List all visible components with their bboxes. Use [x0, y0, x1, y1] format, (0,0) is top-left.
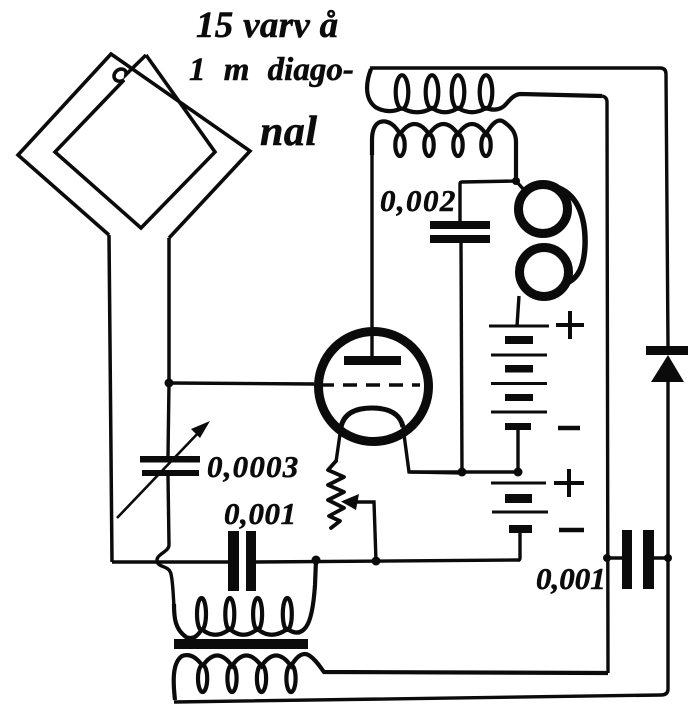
label 0,001 right	[536, 561, 606, 597]
wire filament right leg	[403, 427, 465, 473]
wire bottom outer bus	[174, 382, 668, 702]
inductor L2 top coil left tail	[367, 69, 402, 111]
wire filament bus	[409, 470, 518, 473]
battery B1 plus	[556, 311, 584, 339]
wire filament left leg	[336, 427, 341, 462]
rheostat R1 arrow tap	[341, 494, 359, 510]
node rheostat tap junction	[372, 557, 381, 566]
wire 0,002 top lead	[460, 181, 516, 221]
node 0,002 bottom junction	[458, 468, 467, 477]
wire phones bottom stub	[517, 296, 519, 326]
tube V1 plate lead	[370, 152, 373, 356]
variable capacitor C1 plates	[140, 456, 200, 476]
transformer T1 primary left tail	[174, 604, 202, 638]
wire bottom bus right	[256, 560, 520, 562]
wire antenna right leg	[167, 238, 171, 383]
label 15 varv å	[196, 4, 338, 47]
headphones P1 ear top	[519, 185, 568, 234]
battery B2 plus	[554, 469, 584, 497]
node C4 left junction	[603, 554, 611, 562]
battery B2 cells	[491, 483, 548, 512]
inductor L2 loops	[396, 75, 493, 109]
transformer T1 secondary left tail	[174, 655, 203, 700]
label nal	[260, 108, 318, 156]
wire antenna left leg	[109, 235, 112, 562]
battery B1 minus	[558, 426, 580, 431]
variable capacitor C1 arrow	[117, 430, 201, 518]
inductor L3 loops	[395, 134, 490, 156]
inductor L3 plate coil left tail	[372, 121, 400, 155]
inductor L3 humps	[400, 121, 516, 182]
label 0,001 left	[224, 496, 297, 532]
loop antenna L1 outer turn	[18, 54, 250, 238]
label 0,0003	[207, 449, 299, 485]
tube V1 filament dome	[341, 408, 403, 427]
rheostat R1 zigzag	[328, 461, 344, 528]
wire phones top stub	[516, 181, 525, 191]
diode D1 bar	[646, 346, 688, 355]
wire hook to transformer primary	[157, 545, 174, 606]
label 0,002	[380, 183, 457, 219]
capacitor C2 0,001 plates	[228, 531, 256, 591]
capacitor C4 0,001 plates	[622, 530, 654, 589]
diode D1 triangle	[651, 355, 684, 382]
tube V1 envelope	[319, 332, 429, 442]
tube V1 plate bar	[344, 356, 401, 365]
node primary right junction	[312, 556, 321, 565]
wire top bus	[370, 68, 668, 346]
transformer T1 secondary humps	[203, 654, 608, 673]
wire B1 bottom stub	[516, 430, 519, 472]
node battery junction	[514, 468, 523, 477]
loop antenna L1 inner turn	[55, 55, 215, 228]
transformer T1 secondary loops	[198, 665, 296, 692]
wire inner right vertical	[602, 96, 608, 673]
variable capacitor C1 lead bottom	[168, 476, 169, 545]
node plate coil / phones junction	[512, 177, 520, 185]
inductor L2 scallops	[402, 94, 602, 112]
node C4 right junction	[664, 554, 672, 562]
transformer T1 core	[174, 639, 308, 649]
transformer T1 primary scallops	[202, 560, 317, 635]
headphones P1 ear bottom	[520, 248, 569, 297]
wire grid lead	[169, 383, 314, 384]
wire bottom bus left	[112, 560, 228, 563]
transformer T1 primary loops	[197, 598, 292, 630]
label 1 m diago-	[189, 52, 354, 89]
capacitor C3 0,002 plates	[430, 221, 490, 243]
battery B2 minus	[559, 528, 584, 533]
headphones P1 band	[559, 188, 585, 282]
wire 0,002 bottom lead	[461, 243, 462, 472]
battery B1 cells	[489, 326, 549, 412]
wire B2 bottom lead	[518, 533, 520, 560]
capacitor C4 0,001 leads	[607, 556, 668, 559]
variable capacitor C1 0,0003 lead top	[168, 383, 169, 456]
node grid junction	[165, 379, 174, 388]
tube V1 grid dashes	[320, 383, 420, 387]
